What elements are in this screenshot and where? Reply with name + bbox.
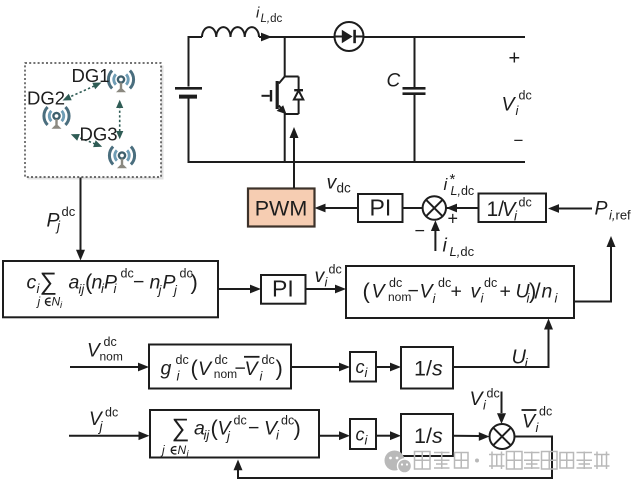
svg-text:dc: dc xyxy=(484,276,497,290)
svg-text:V: V xyxy=(198,358,213,380)
svg-text:c: c xyxy=(356,425,365,445)
svg-text:i: i xyxy=(444,175,449,194)
svg-text:dc: dc xyxy=(262,353,275,367)
svg-text:DG1: DG1 xyxy=(72,65,110,86)
svg-text:1/s: 1/s xyxy=(414,357,443,381)
svg-text:∑: ∑ xyxy=(40,269,57,296)
svg-text:i: i xyxy=(325,275,329,290)
svg-text:nom: nom xyxy=(100,350,123,364)
svg-text:dc: dc xyxy=(105,406,118,420)
svg-text:dc: dc xyxy=(519,196,532,210)
svg-text:∑: ∑ xyxy=(172,414,190,442)
svg-text:−: − xyxy=(133,271,144,293)
svg-text:−: − xyxy=(408,280,419,302)
svg-text:V: V xyxy=(502,94,517,116)
svg-text:i: i xyxy=(525,355,529,371)
svg-text:L,dc: L,dc xyxy=(451,184,475,198)
svg-text:L,dc: L,dc xyxy=(261,13,283,25)
svg-text:+: + xyxy=(448,209,459,229)
svg-text:i: i xyxy=(536,420,540,435)
svg-text:PI: PI xyxy=(272,276,294,302)
svg-text:dc: dc xyxy=(121,267,134,281)
svg-text:PWM: PWM xyxy=(255,196,308,220)
svg-text:PI: PI xyxy=(370,195,392,221)
svg-text:V: V xyxy=(218,418,233,440)
svg-text:(: ( xyxy=(363,279,371,304)
svg-text:): ) xyxy=(294,416,301,441)
svg-text:): ) xyxy=(276,356,283,381)
svg-text:dc: dc xyxy=(62,204,76,219)
svg-text:): ) xyxy=(191,270,198,295)
svg-text:g: g xyxy=(161,358,172,380)
svg-text:N: N xyxy=(178,443,187,457)
svg-text:n: n xyxy=(542,281,553,303)
svg-text:dc: dc xyxy=(176,353,189,367)
svg-text:dc: dc xyxy=(234,414,247,428)
svg-text:−: − xyxy=(248,417,259,439)
svg-text:(: ( xyxy=(85,270,93,295)
svg-text:dc: dc xyxy=(215,353,228,367)
svg-text:C: C xyxy=(387,71,401,92)
svg-text:DG2: DG2 xyxy=(27,88,65,109)
svg-text:c: c xyxy=(356,357,365,377)
svg-text:dc: dc xyxy=(519,89,532,103)
svg-text:dc: dc xyxy=(281,414,294,428)
svg-text:i: i xyxy=(443,235,448,257)
svg-text:dc: dc xyxy=(389,276,402,290)
svg-text:+: + xyxy=(509,48,521,70)
svg-text:dc: dc xyxy=(539,405,552,419)
svg-text:i,ref: i,ref xyxy=(609,208,631,223)
svg-text:c: c xyxy=(27,272,37,294)
svg-text:dc: dc xyxy=(487,387,500,401)
svg-text:−: − xyxy=(514,131,524,150)
svg-text:dc: dc xyxy=(104,335,117,349)
svg-text:dc: dc xyxy=(329,263,342,277)
svg-text:i: i xyxy=(516,103,520,118)
svg-text:L,dc: L,dc xyxy=(450,244,475,259)
svg-text:/: / xyxy=(535,279,542,304)
svg-text:P: P xyxy=(595,198,608,220)
svg-text:+: + xyxy=(451,281,462,303)
svg-text:i: i xyxy=(256,5,260,22)
svg-text:dc: dc xyxy=(438,276,451,290)
svg-text:+: + xyxy=(500,281,511,303)
svg-text:dc: dc xyxy=(337,181,352,196)
svg-text:DG3: DG3 xyxy=(80,124,118,145)
svg-text:−: − xyxy=(415,221,426,241)
svg-text:1/s: 1/s xyxy=(414,424,443,448)
svg-text:V: V xyxy=(245,358,260,380)
svg-text:V: V xyxy=(372,281,387,303)
